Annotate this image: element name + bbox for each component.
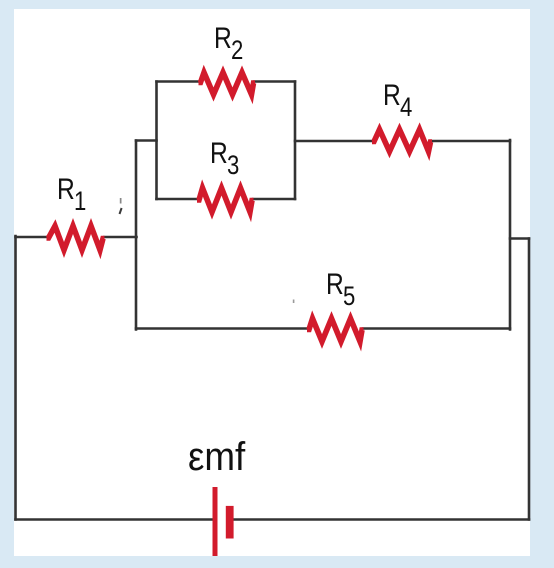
wire: parallel box right side (294, 82, 297, 200)
label R1 (57, 175, 87, 205)
wire: R5 right lead (363, 327, 510, 330)
wire: middle vertical node (135, 141, 138, 330)
label R3 (210, 139, 240, 169)
wire: R1 left lead (16, 236, 47, 239)
wire: bottom right of battery (235, 518, 530, 521)
resistor R1 (47, 226, 105, 250)
label R2 (214, 24, 244, 54)
wire: R2 right lead (255, 80, 296, 83)
battery long plate (positive) (213, 487, 218, 556)
label R4 (383, 81, 413, 111)
resistor R4 (372, 130, 432, 152)
wire: R1 right lead (105, 236, 137, 239)
wire: R5 left lead (136, 327, 307, 330)
resistor R5 (307, 319, 364, 342)
wire: vertical joining R4 and R5 (509, 140, 512, 330)
battery short plate (negative) (226, 506, 234, 539)
label emf (188, 437, 245, 477)
wire: right wall (528, 239, 531, 520)
wire: R3 left lead (157, 198, 198, 201)
wire: R4 left lead (295, 140, 372, 143)
label R5 (326, 270, 356, 300)
resistor R3 (197, 188, 254, 212)
wire: R4 right lead (432, 140, 510, 143)
wire: parallel box left side (155, 82, 158, 200)
artifact comma mark below tick (120, 208, 122, 214)
wire: connector into parallel box (136, 139, 157, 142)
wire: bottom left of battery (16, 518, 214, 521)
wire: left wall (14, 236, 17, 520)
wire: jog at right side (510, 237, 529, 240)
wire: R3 right lead (253, 198, 295, 201)
artifact tick above R1 wire (120, 198, 122, 204)
wire: R2 left lead (157, 80, 199, 83)
resistor R2 (199, 73, 256, 95)
artifact dot left of R5 label (293, 300, 295, 304)
